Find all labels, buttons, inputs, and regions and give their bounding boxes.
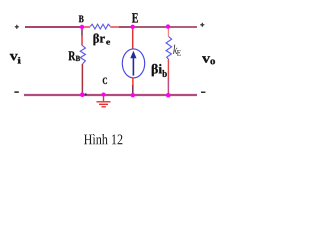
wire node B to resistor — [82, 26, 90, 28]
ground bar 2 — [99, 103, 108, 105]
bottom wire — [24, 94, 197, 96]
small black junction dot — [85, 93, 87, 95]
current source beta-i_b (ellipse) — [122, 49, 144, 78]
plus sign output — [200, 23, 204, 27]
top wire node E to node of RE — [133, 26, 169, 28]
wire resistor to node E (red part) — [110, 26, 119, 28]
node C dot — [102, 93, 106, 97]
node CS-bottom dot — [131, 93, 135, 97]
top wire left segment (input + to node B) — [25, 26, 82, 28]
wire R_B down to ground rail — [81, 64, 83, 95]
caption Hinh 12 — [84, 134, 122, 144]
wire resistor to node E (maroon part) — [119, 26, 133, 28]
resistor R_E (vertical zigzag) — [166, 37, 172, 60]
top wire node of RE to output + — [168, 26, 197, 28]
minus sign input — [14, 91, 18, 93]
label R_B — [69, 51, 76, 60]
label k_E — [173, 45, 177, 54]
wire R_E to bottom rail (crimson part) — [167, 78, 169, 95]
label v_o — [202, 56, 210, 63]
label v_i — [10, 54, 18, 61]
label beta-i_b — [152, 64, 162, 76]
wire B down (maroon stub) — [81, 27, 83, 36]
label B — [79, 16, 84, 23]
node RE-bottom dot — [166, 93, 171, 98]
wire R_E down to bottom rail — [167, 60, 169, 78]
label C — [103, 78, 107, 84]
wire current source down (red part) — [132, 78, 134, 85]
wire RE node down (salmon stub) — [167, 27, 169, 37]
label E — [132, 13, 138, 22]
current source arrowhead — [130, 51, 136, 58]
node B dot — [80, 25, 84, 29]
resistor beta-r_e (horizontal zigzag) — [90, 24, 110, 29]
minus sign output — [201, 92, 205, 94]
resistor R_B (vertical zigzag) — [80, 45, 85, 64]
wire node E down to current source — [132, 27, 134, 49]
ground bar 1 — [97, 101, 111, 103]
node RE-top dot — [166, 24, 170, 28]
node E dot — [131, 25, 135, 29]
label beta-r_e — [94, 34, 105, 46]
node RB-bottom dot — [80, 92, 85, 97]
ground bar 3 — [102, 106, 106, 108]
wire B down (red part) — [81, 36, 83, 46]
current source arrow (upward) — [132, 58, 134, 76]
ground stem at node C — [103, 95, 105, 102]
wire current source down (maroon part) — [132, 85, 134, 95]
plus sign input — [15, 25, 19, 29]
